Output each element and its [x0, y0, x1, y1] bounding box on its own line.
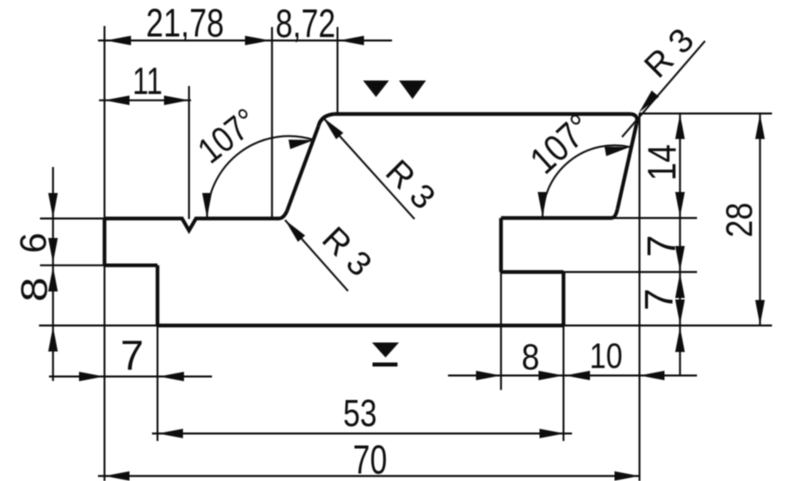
arrowhead 70 right [615, 471, 640, 481]
arrowhead leader R3 lower [281, 217, 305, 242]
extension line bottom right [564, 325, 773, 327]
arrowhead 8l bottom (up at bottom line) [48, 327, 58, 352]
part outline right inner edge [499, 218, 503, 272]
extension line x=104.5 upper [104, 26, 106, 219]
svg-text:53: 53 [343, 393, 377, 435]
svg-text:70: 70 [353, 436, 387, 481]
part outline right step horizontal [501, 270, 564, 274]
dimension line 6 / 8 left vertical [52, 167, 54, 381]
dimension line 53 [152, 433, 572, 435]
part outline top-right corner R3 [631, 114, 637, 124]
arrowhead 7lr up from below bottom [675, 327, 685, 352]
part outline right step vertical [562, 272, 566, 326]
part outline left shelf with V-notch [105, 219, 280, 231]
arrowhead arc right end (right) [605, 142, 631, 156]
arrowhead 53 left [158, 429, 183, 439]
arrowhead 8br right at 563 [539, 371, 564, 381]
svg-text:7: 7 [638, 288, 682, 310]
part outline right slope [618, 124, 637, 209]
extension line x=157.5 [157, 326, 159, 442]
dimension line 7 bottom left [49, 376, 212, 378]
surface finish triangle bottom [372, 343, 399, 358]
dimension line 14 / 7 / 7 right vertical [679, 114, 681, 376]
extension line x=563.5 [563, 326, 565, 442]
leader R3 middle [323, 118, 415, 220]
part outline right shelf [501, 216, 612, 220]
extension line bottom left [39, 325, 158, 327]
extension line step right [564, 271, 698, 273]
svg-text:6: 6 [13, 233, 54, 254]
arrowhead 7bl left outside [79, 372, 104, 382]
arrowhead 6 top (down at shelf) [48, 193, 58, 218]
surface finish triangle 2 top [399, 81, 426, 100]
part outline left edge [103, 219, 107, 266]
angle arc 107 right [543, 145, 631, 217]
part outline left step horizontal [105, 263, 158, 267]
arrowhead leader R3 middle [319, 114, 343, 139]
arrowhead 14 bottom [675, 192, 685, 217]
arrowhead 8l top (up below step) [48, 267, 58, 292]
leader R3 top right [622, 41, 705, 137]
arrowhead arc left start (down) [202, 193, 212, 218]
dimension line 8 / 10 bottom right [448, 375, 697, 377]
extension line shelf left [40, 218, 105, 220]
dimension line 70 [98, 475, 640, 477]
dimension line 28 vertical [759, 114, 761, 326]
svg-text:8: 8 [521, 338, 539, 378]
arrowhead 11 right [164, 96, 189, 106]
svg-text:7: 7 [120, 332, 143, 379]
arrowhead 7bl right outside [159, 372, 184, 382]
part outline top surface [334, 112, 631, 116]
arrowhead arc left end (right) [289, 135, 315, 149]
arrowhead 21,78 left [106, 36, 131, 46]
svg-text:11: 11 [133, 60, 163, 103]
arrowhead 10 right outside [640, 371, 665, 381]
arrowhead 7ur bottom (down at step) [675, 246, 685, 271]
dimension line 11 [99, 99, 191, 101]
leader R3 lower [285, 220, 348, 291]
extension line x=272 [271, 27, 273, 218]
svg-text:8,72: 8,72 [276, 1, 336, 46]
arrowhead leader R3 top right [635, 90, 659, 115]
svg-text:8: 8 [14, 277, 56, 302]
extension line x=104.5 lower [104, 265, 106, 481]
extension line shelf right [614, 217, 697, 219]
arrowhead arc right start (down) [538, 192, 548, 217]
part outline left slope [287, 126, 319, 211]
part outline right fillet R3 [612, 209, 618, 218]
surface finish underline bottom [373, 363, 398, 367]
extension line x=501 [500, 272, 502, 390]
svg-text:21,78: 21,78 [146, 1, 224, 46]
svg-text:7: 7 [640, 235, 684, 257]
extension line x=337.5 [337, 27, 339, 113]
arrowhead 28 top [755, 114, 765, 139]
extension line x=189 (notch) [188, 86, 190, 219]
arrowhead 11 left [105, 96, 130, 106]
part outline left step vertical [156, 265, 160, 325]
svg-text:14: 14 [639, 144, 684, 180]
surface finish triangle 1 top [363, 81, 389, 98]
extension line step left [40, 264, 105, 266]
dimension line 21,78 / 8,72 [98, 40, 392, 42]
arrowhead 28 bottom [755, 300, 765, 325]
svg-text:10: 10 [589, 337, 622, 376]
angle arc 107 left [207, 136, 314, 218]
part outline bottom [158, 324, 564, 328]
arrowhead 14 top [675, 114, 685, 139]
arrowhead 8,72 right outside [339, 36, 364, 46]
extension line top right [639, 113, 772, 115]
extension line x=639.5 [639, 114, 641, 481]
arrowhead 6 bottom (down at step) [48, 238, 58, 263]
part outline top-left corner R3 [319, 114, 335, 126]
arrowhead 7lr top (up below step) [675, 273, 685, 298]
arrowhead 53 right [540, 429, 565, 439]
arrowhead 7lr bottom (down at bottom) [675, 300, 685, 325]
svg-text:28: 28 [720, 203, 761, 238]
part outline left fillet R3 [279, 211, 287, 219]
arrowhead 10 left at 565 [565, 371, 590, 381]
arrowhead 70 left [105, 471, 130, 481]
arrowhead 21,78 right [245, 36, 270, 46]
arrowhead 8br left outside [476, 371, 501, 381]
